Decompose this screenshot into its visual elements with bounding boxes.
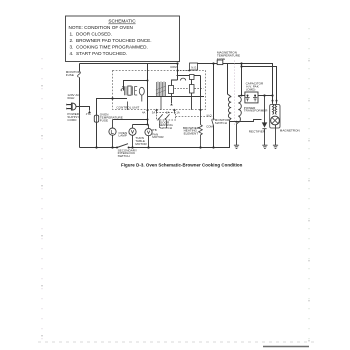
svg-text:4. START PAD TOUCHED.: 4. START PAD TOUCHED. bbox=[70, 51, 128, 56]
svg-text:(OMD): (OMD) bbox=[246, 88, 255, 92]
svg-text:LAMP: LAMP bbox=[119, 134, 127, 138]
svg-text:N.O.: N.O. bbox=[191, 65, 197, 69]
svg-text:4A: 4A bbox=[142, 110, 146, 114]
svg-text:MOTOR: MOTOR bbox=[152, 135, 164, 139]
svg-text:SWITCH: SWITCH bbox=[160, 126, 172, 130]
svg-text:COM: COM bbox=[170, 65, 177, 69]
svg-text:ELEMENT: ELEMENT bbox=[184, 131, 199, 135]
svg-text:COM: COM bbox=[206, 124, 213, 128]
svg-text:CORD: CORD bbox=[67, 118, 77, 122]
svg-text:SCHEMATIC: SCHEMATIC bbox=[108, 19, 136, 24]
svg-text:TRANSFORMER: TRANSFORMER bbox=[244, 109, 268, 113]
svg-text:3A: 3A bbox=[152, 110, 156, 114]
svg-text:SWITCH: SWITCH bbox=[118, 154, 130, 158]
svg-text:3. COOKING TIME PROGRAMMED.: 3. COOKING TIME PROGRAMMED. bbox=[70, 45, 148, 50]
svg-text:CONTROL UNIT: CONTROL UNIT bbox=[116, 105, 139, 109]
svg-text:SWITCH: SWITCH bbox=[215, 121, 227, 125]
svg-text:2. BROWNER PAD TOUCHED ONCE.: 2. BROWNER PAD TOUCHED ONCE. bbox=[70, 38, 152, 43]
svg-text:FUSE: FUSE bbox=[217, 57, 225, 61]
svg-text:60Hz: 60Hz bbox=[67, 96, 75, 100]
svg-text:RECTIFIER: RECTIFIER bbox=[249, 130, 266, 134]
svg-text:FUSE: FUSE bbox=[66, 73, 74, 77]
svg-text:2A: 2A bbox=[166, 110, 170, 114]
svg-text:N.O.: N.O. bbox=[207, 114, 213, 118]
svg-text:FUSE: FUSE bbox=[100, 118, 108, 122]
svg-text:NOTE: CONDITION OF OVEN: NOTE: CONDITION OF OVEN bbox=[69, 25, 133, 30]
svg-text:JTA: JTA bbox=[86, 112, 91, 116]
svg-text:Figure D-3. Oven Schematic-Bro: Figure D-3. Oven Schematic-Browner Cooki… bbox=[121, 162, 243, 167]
svg-text:MOTOR: MOTOR bbox=[135, 142, 147, 146]
svg-text:MAGNETRON: MAGNETRON bbox=[280, 128, 300, 132]
svg-text:1. DOOR CLOSED.: 1. DOOR CLOSED. bbox=[70, 32, 112, 37]
svg-text:JTB: JTB bbox=[152, 128, 157, 132]
svg-text:1A: 1A bbox=[176, 110, 180, 114]
